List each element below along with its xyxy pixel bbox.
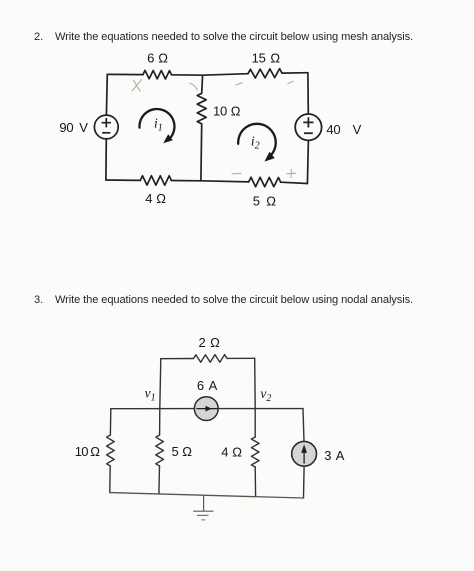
- ground symbol: [193, 495, 213, 520]
- wire: top loop rail right segment: [227, 357, 255, 359]
- svg-text:Ω: Ω: [210, 335, 220, 350]
- svg-text:3: 3: [324, 448, 331, 463]
- svg-text:V: V: [79, 120, 88, 135]
- value label 2 ohm: [199, 335, 221, 350]
- problem 3 heading: [34, 294, 43, 306]
- resistor 4 ohm (bottom-left): [140, 176, 171, 186]
- svg-text:Ω: Ω: [270, 50, 280, 65]
- voltage source 90V: [94, 115, 118, 139]
- resistor 4 ohm (v2 branch): [251, 437, 259, 467]
- wire: v1 branch bottom: [158, 466, 161, 494]
- value label 5 ohm: [253, 193, 276, 208]
- pencil minus above 5 ohm: [232, 172, 241, 174]
- svg-text:Ω: Ω: [90, 444, 100, 459]
- wire: middle branch upper: [201, 75, 204, 93]
- wire: middle rail left of 6A source: [111, 408, 195, 410]
- resistor 5 ohm (bottom-right): [249, 177, 281, 187]
- pencil hook right of 6 ohm: [190, 83, 197, 90]
- wire: v1 branch upper: [160, 359, 161, 409]
- mesh current i1 loop arrow: [139, 109, 174, 143]
- wire: middle branch lower: [200, 124, 203, 181]
- value label 10 ohm (left branch): [75, 444, 101, 459]
- mesh current i2 loop arrow: [238, 124, 276, 162]
- wire: v2 branch bottom: [254, 467, 256, 497]
- value label 10 ohm: [213, 104, 241, 119]
- svg-text:10: 10: [213, 104, 227, 119]
- wire: right wire lower: [307, 140, 308, 183]
- current source 3A: [292, 441, 317, 466]
- value label 40 V: [326, 122, 361, 137]
- value label 6 A: [197, 378, 218, 393]
- resistor 15 ohm (top-right): [248, 69, 282, 78]
- wire: top rail right segment: [282, 72, 308, 74]
- wire: middle rail right of 6A source: [218, 408, 303, 410]
- wire: v1 branch middle-to-resistor: [159, 409, 161, 435]
- wire: top rail left segment: [107, 73, 143, 75]
- value label 15 ohm: [252, 50, 281, 65]
- resistor 2 ohm (top): [194, 355, 228, 363]
- pencil dash left of 15 ohm: [236, 83, 243, 85]
- wire: right wire upper: [307, 73, 309, 114]
- wire: top loop rail left segment: [161, 358, 194, 360]
- svg-text:Ω: Ω: [182, 444, 192, 459]
- wire: bottom rail: [110, 493, 304, 498]
- wire: right edge upper: [303, 409, 304, 442]
- wire: left wire upper: [105, 74, 108, 115]
- svg-text:A: A: [336, 448, 345, 463]
- svg-text:15: 15: [252, 50, 266, 65]
- problem 2 heading: [34, 31, 43, 43]
- pencil dash right of 15 ohm: [288, 81, 293, 83]
- svg-text:5: 5: [253, 193, 260, 208]
- svg-text:i1: i1: [154, 116, 163, 134]
- current source 6A: [194, 397, 218, 421]
- svg-text:Ω: Ω: [158, 51, 168, 66]
- svg-text:Ω: Ω: [266, 193, 276, 208]
- svg-text:4: 4: [145, 191, 152, 206]
- svg-text:Ω: Ω: [232, 444, 242, 459]
- resistor 5 ohm (v1 branch): [156, 435, 164, 466]
- wire: left wire lower: [105, 139, 107, 180]
- value label 4 ohm: [145, 191, 166, 206]
- wire: bottom rail right segment: [281, 182, 308, 183]
- wire: v2 branch upper: [254, 358, 257, 408]
- value label 5 ohm (v1 branch): [172, 444, 193, 459]
- svg-text:2: 2: [199, 335, 206, 350]
- resistor 6 ohm (top-left): [143, 70, 172, 79]
- svg-text:Ω: Ω: [231, 104, 241, 119]
- wire: v2 branch middle-to-resistor: [254, 409, 256, 437]
- svg-text:4: 4: [221, 444, 228, 459]
- svg-text:90: 90: [59, 120, 73, 135]
- wire: left edge lower: [109, 466, 111, 493]
- svg-text:A: A: [209, 378, 218, 393]
- value label 4 ohm (v2 branch): [221, 444, 242, 459]
- wire: right edge lower: [303, 466, 306, 498]
- voltage source 40V: [295, 114, 321, 140]
- wire: top rail middle segment: [172, 74, 249, 76]
- svg-text:5: 5: [172, 444, 179, 459]
- svg-text:40: 40: [326, 122, 340, 137]
- svg-text:10: 10: [75, 444, 88, 459]
- value label 6 ohm: [147, 51, 168, 66]
- svg-text:v1: v1: [145, 385, 156, 403]
- svg-text:V: V: [353, 122, 362, 137]
- value label 3 A: [324, 448, 345, 463]
- resistor 10 ohm (middle): [197, 93, 206, 124]
- svg-text:Ω: Ω: [156, 191, 166, 206]
- svg-text:v2: v2: [260, 386, 271, 404]
- svg-text:i2: i2: [251, 134, 260, 152]
- wire: bottom rail middle segment: [171, 181, 248, 182]
- wire: bottom rail left segment: [106, 179, 140, 181]
- value label 90 V: [59, 120, 88, 135]
- pencil mark x below 6 ohm: [132, 80, 141, 92]
- pencil plus above 5 ohm: [287, 170, 296, 178]
- svg-text:6: 6: [147, 51, 154, 66]
- svg-text:6: 6: [197, 378, 204, 393]
- wire: left edge upper: [109, 409, 111, 435]
- resistor 10 ohm (left branch): [107, 435, 115, 466]
